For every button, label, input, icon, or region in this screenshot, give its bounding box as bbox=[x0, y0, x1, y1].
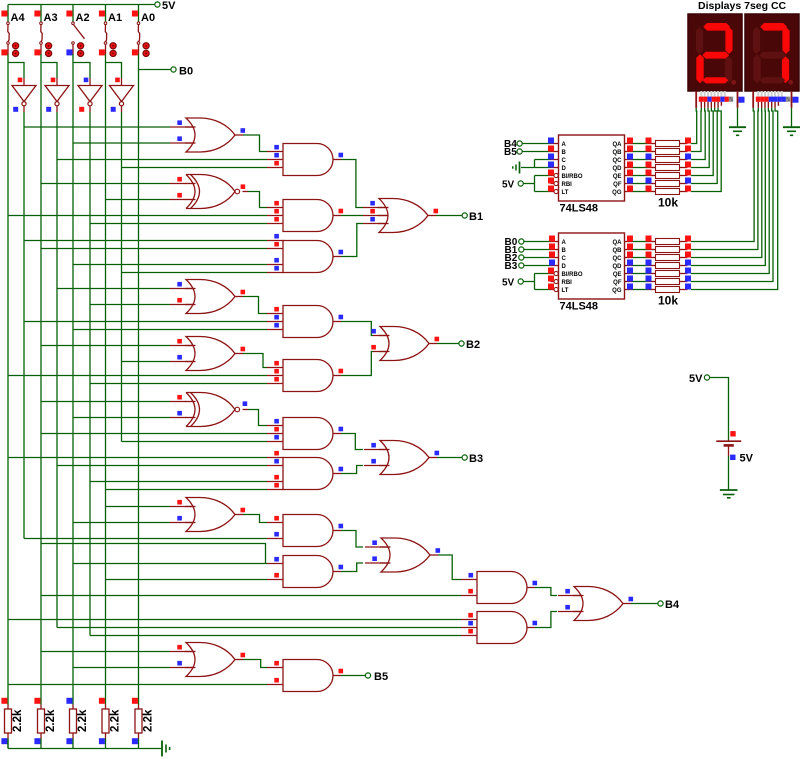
svg-text:QF: QF bbox=[613, 182, 622, 188]
svg-text:5V: 5V bbox=[740, 453, 754, 465]
ground (DS1 common) bbox=[729, 126, 746, 128]
wire A2 bus vertical bbox=[72, 54, 74, 705]
or-gate U24 (B4 stage) bbox=[186, 498, 235, 532]
switch A0 (SPDT logic input) bbox=[138, 5, 140, 23]
wire to AND U10 input 3 bbox=[122, 167, 268, 169]
wire U15 output to AND U16 input 1 bbox=[235, 296, 243, 298]
resistor R2 2.2k (pull-down) bbox=[40, 705, 42, 710]
7-segment display DS1 (digit 2) bbox=[688, 14, 742, 91]
wire to AND U13 input 3 bbox=[73, 264, 267, 266]
wire to OR U24 input 2 bbox=[73, 522, 170, 524]
wire to AND U16 input 3 bbox=[73, 329, 267, 331]
wire U13 output to OR U14 input 3 bbox=[333, 256, 341, 258]
or-gate U19 (output B2) bbox=[380, 327, 429, 361]
resistor RN2B 10k bbox=[633, 249, 648, 251]
svg-text:B1: B1 bbox=[469, 211, 483, 223]
wire to AND U18 input 3 bbox=[90, 383, 267, 385]
svg-text:QA: QA bbox=[613, 142, 623, 148]
svg-text:2.2k: 2.2k bbox=[110, 709, 122, 732]
wire A3 bus vertical bbox=[40, 54, 42, 705]
resistor RN1F 10k bbox=[633, 183, 648, 185]
wire to OR U31 input 1 bbox=[41, 651, 170, 653]
xnor-gate U11 (B1 stage) bbox=[186, 175, 235, 209]
wire U25 output to OR U27 input 1 bbox=[333, 530, 341, 532]
or-gate U31 (B5 stage) bbox=[186, 643, 235, 677]
svg-text:2.2k: 2.2k bbox=[143, 709, 155, 732]
wire to XNOR U11 input 2 bbox=[106, 199, 171, 201]
wire to AND U22 input 2 bbox=[57, 465, 267, 467]
wire A1 bus vertical bbox=[105, 54, 107, 705]
svg-text:QF: QF bbox=[613, 280, 622, 286]
wire to AND U18 input 2 bbox=[8, 375, 267, 377]
wire U21 output to OR U23 input 1 bbox=[333, 433, 341, 435]
wire RN1B to display DS1 pin 2 bbox=[691, 108, 701, 152]
wire to OR U31 input 2 bbox=[73, 667, 170, 669]
svg-text:D: D bbox=[562, 166, 567, 172]
svg-text:B: B bbox=[562, 248, 567, 254]
wire to AND U21 input 2 bbox=[41, 433, 267, 435]
resistor R5 2.2k (pull-down) bbox=[138, 705, 140, 710]
inverter U5 NOT (A4) bbox=[23, 78, 25, 86]
or-gate U27 (B4 stage) bbox=[381, 538, 430, 572]
ground (DS2 common) bbox=[783, 126, 800, 128]
ground (U1 C,D pins) bbox=[519, 162, 521, 174]
wire (A2) input branch bbox=[73, 63, 90, 79]
switch A1 (SPDT logic input) bbox=[105, 5, 107, 23]
or-gate U14 (3-input, output B1) bbox=[379, 199, 428, 233]
or-gate U15 (B2 stage) bbox=[186, 280, 235, 314]
wire to AND U22 input 4 bbox=[106, 489, 268, 491]
wire to XNOR U20 input 1 bbox=[41, 401, 170, 403]
wire RN2B to display DS2 pin 2 bbox=[691, 108, 758, 250]
svg-text:QA: QA bbox=[613, 240, 623, 246]
svg-text:74LS48: 74LS48 bbox=[560, 301, 599, 313]
or-gate U30 (output B4) bbox=[574, 587, 623, 621]
wire to AND U22 input 3 bbox=[90, 481, 267, 483]
wire 5V terminal to battery BT1 bbox=[710, 378, 729, 440]
terminal B1 (U2 input B) bbox=[519, 247, 524, 252]
and-gate U32 (output B5) bbox=[283, 660, 333, 692]
svg-text:QG: QG bbox=[612, 190, 622, 196]
switch A4 (SPDT logic input) bbox=[7, 5, 9, 23]
wire A4 bus vertical bbox=[7, 54, 9, 705]
wire NOT-A1 bus vertical bbox=[121, 112, 123, 442]
resistor RN2D 10k bbox=[633, 265, 648, 267]
ground (bottom rail) bbox=[161, 741, 163, 757]
and-gate U26 (B4 stage) bbox=[283, 556, 333, 588]
and-gate U16 (3-input, B2 stage) bbox=[283, 306, 333, 338]
wire U29 output to OR U30 input 2 bbox=[527, 627, 535, 629]
resistor RN1E 10k bbox=[633, 175, 648, 177]
svg-text:QC: QC bbox=[613, 256, 623, 262]
wire (A4) input branch bbox=[8, 63, 24, 79]
resistor RN1G 10k bbox=[633, 191, 648, 193]
resistor RN2E 10k bbox=[633, 273, 648, 275]
svg-text:QE: QE bbox=[613, 174, 622, 180]
svg-text:QE: QE bbox=[613, 272, 622, 278]
and-gate U28 (B4 stage) bbox=[477, 572, 527, 604]
svg-text:5V: 5V bbox=[162, 0, 176, 12]
wire to OR U17 input 1 bbox=[41, 345, 170, 347]
svg-text:QC: QC bbox=[613, 158, 623, 164]
wire to AND U32 input 2 bbox=[8, 684, 267, 686]
wire U17 output to AND U18 input 1 bbox=[235, 353, 243, 355]
wire U30 output to terminal B4 bbox=[623, 603, 631, 605]
svg-text:5V: 5V bbox=[502, 180, 515, 191]
terminal 5V (battery) bbox=[704, 375, 709, 380]
svg-text:Displays 7seg CC: Displays 7seg CC bbox=[698, 0, 787, 12]
resistor RN1C 10k bbox=[633, 159, 648, 161]
power rail 5V wire bbox=[8, 4, 155, 6]
or-gate U23 (output B3) bbox=[380, 441, 429, 475]
wire U12 output to OR U14 input 2 bbox=[333, 215, 341, 217]
svg-text:QD: QD bbox=[613, 166, 623, 172]
wire U32 output to terminal B5 bbox=[333, 675, 341, 677]
wire to AND U13 input 2 bbox=[41, 248, 267, 250]
svg-text:A1: A1 bbox=[108, 12, 122, 24]
svg-text:QB: QB bbox=[613, 248, 623, 254]
resistor R3 2.2k (pull-down) bbox=[72, 705, 74, 710]
terminal B5 (U1 input B) bbox=[517, 149, 522, 154]
resistor RN1A 10k bbox=[633, 143, 648, 145]
xnor-gate U20 (B3 stage) bbox=[186, 393, 235, 427]
wire to AND U26 input 1 bbox=[73, 563, 267, 565]
wire ground to U1 pins C,D bbox=[521, 160, 551, 168]
wire U19 output to terminal B2 bbox=[429, 343, 437, 345]
IC U1 74LS48 (tens digit decoder) bbox=[559, 135, 625, 201]
wire R2 to ground rail bbox=[40, 739, 42, 749]
svg-text:RBI: RBI bbox=[562, 182, 573, 188]
IC U2 74LS48 (units digit decoder) bbox=[559, 233, 625, 299]
wire RN2G to display DS2 pin 7 bbox=[691, 108, 778, 290]
terminal 5V (top) bbox=[155, 2, 160, 7]
wire DS2 common cathode to ground bbox=[791, 108, 793, 127]
wire U24 output to AND U25 input 1 bbox=[235, 514, 243, 516]
wire to AND U29 input 2 bbox=[57, 627, 461, 629]
svg-text:B2: B2 bbox=[466, 339, 480, 351]
resistor R1 2.2k (pull-down) bbox=[7, 705, 9, 710]
wire U10 output to OR U14 input 1 bbox=[333, 159, 341, 161]
svg-text:QD: QD bbox=[613, 264, 623, 270]
wire DS1 common cathode to ground bbox=[737, 108, 739, 127]
svg-text:QB: QB bbox=[613, 150, 623, 156]
svg-text:BI/RBO: BI/RBO bbox=[562, 174, 583, 180]
switch A3 (SPDT logic input) bbox=[40, 5, 42, 23]
and-gate U21 (3-input, B3 stage) bbox=[283, 418, 333, 450]
wire NOT-A4 bus vertical bbox=[23, 112, 25, 539]
wire ground rail (bottom) bbox=[8, 748, 161, 750]
wire to AND U10 input 2 bbox=[57, 159, 267, 161]
wire to OR U9 input 2 bbox=[73, 142, 170, 144]
svg-text:C: C bbox=[562, 256, 567, 262]
svg-text:A: A bbox=[562, 142, 567, 148]
svg-text:A0: A0 bbox=[141, 12, 155, 24]
resistor RN2C 10k bbox=[633, 257, 648, 259]
svg-text:2.2k: 2.2k bbox=[12, 709, 24, 732]
wire to AND U29 input 3 bbox=[90, 635, 461, 637]
svg-text:A3: A3 bbox=[44, 12, 58, 24]
wire RN1A to display DS1 pin 1 bbox=[691, 108, 697, 144]
svg-text:B5: B5 bbox=[374, 671, 388, 683]
svg-text:74LS48: 74LS48 bbox=[560, 203, 599, 215]
wire to AND U28 input 2 bbox=[41, 595, 461, 597]
svg-text:BI/RBO: BI/RBO bbox=[562, 272, 583, 278]
wire NOT-A2 bus vertical bbox=[89, 112, 91, 636]
wire to AND U21 input 3 bbox=[122, 441, 268, 443]
svg-text:B4: B4 bbox=[665, 599, 680, 611]
wire to AND U16 input 2 bbox=[24, 321, 267, 323]
svg-text:10k: 10k bbox=[658, 196, 678, 210]
terminal B1 bbox=[462, 213, 467, 218]
svg-text:5V: 5V bbox=[689, 373, 703, 385]
wire U22 output to OR U23 input 2 bbox=[333, 473, 341, 475]
svg-text:A: A bbox=[562, 240, 567, 246]
wire U9 output to AND U10 input 1 bbox=[235, 134, 243, 136]
wire U31 output to AND U32 input 1 bbox=[235, 659, 243, 661]
svg-text:A4: A4 bbox=[11, 12, 26, 24]
svg-text:C: C bbox=[562, 158, 567, 164]
svg-text:B3: B3 bbox=[469, 453, 483, 465]
wire R5 to ground rail bbox=[138, 739, 140, 749]
battery BT1 5V bbox=[716, 440, 741, 442]
terminal B4 (U1 input A) bbox=[517, 141, 522, 146]
switch A2 (SPDT logic input) bbox=[72, 5, 74, 23]
wire RN1F to display DS1 pin 6 bbox=[691, 108, 717, 184]
wire RN2E to display DS2 pin 5 bbox=[691, 108, 769, 274]
svg-text:RBI: RBI bbox=[562, 280, 573, 286]
wire U26 output to OR U27 input 2 bbox=[333, 571, 341, 573]
wire battery BT1 to ground bbox=[728, 456, 730, 490]
wire U18 output to OR U19 input 2 bbox=[333, 375, 341, 377]
and-gate U29 (3-input, B4 stage) bbox=[477, 612, 527, 644]
wire RN2F to display DS2 pin 6 bbox=[691, 108, 773, 282]
terminal B0 bbox=[171, 67, 176, 72]
terminal B2 bbox=[459, 341, 464, 346]
wire to AND U13 input 4 bbox=[122, 272, 268, 274]
svg-text:B: B bbox=[562, 150, 567, 156]
svg-text:2.2k: 2.2k bbox=[77, 709, 89, 732]
wire RN1E to display DS1 pin 5 bbox=[691, 108, 713, 176]
wire U28 output to OR U30 input 1 bbox=[527, 587, 535, 589]
and-gate U13 (4-input, B1 stage) bbox=[283, 241, 333, 273]
svg-text:2.2k: 2.2k bbox=[45, 709, 57, 732]
ground (battery BT1) bbox=[720, 489, 738, 491]
wire (A3) input branch bbox=[41, 63, 57, 79]
wire to XNOR U20 input 2 bbox=[73, 417, 170, 419]
wire U11 output to AND U12 input 1 bbox=[243, 191, 249, 193]
wire R4 to ground rail bbox=[105, 739, 107, 749]
7-segment display DS2 (digit 7) bbox=[745, 14, 799, 91]
svg-text:A2: A2 bbox=[76, 12, 90, 24]
wire RN2C to display DS2 pin 3 bbox=[691, 108, 762, 258]
and-gate U22 (4-input, B3 stage) bbox=[283, 458, 333, 490]
svg-text:B3: B3 bbox=[505, 261, 518, 272]
wire RN1C to display DS1 pin 3 bbox=[691, 108, 705, 160]
or-gate U9 (B1 stage) bbox=[186, 118, 235, 152]
wire RN2D to display DS2 pin 4 bbox=[691, 108, 765, 266]
svg-text:5V: 5V bbox=[502, 278, 515, 289]
wire to AND U13 input 1 bbox=[24, 240, 267, 242]
resistor RN2G 10k bbox=[633, 289, 648, 291]
and-gate U18 (3-input, B2 stage) bbox=[283, 360, 333, 392]
terminal B3 bbox=[462, 455, 467, 460]
inverter U7 NOT (A2) bbox=[89, 78, 91, 86]
wire to XNOR U11 input 1 bbox=[41, 183, 170, 185]
and-gate U10 (3-input, B1 stage) bbox=[283, 144, 333, 176]
resistor RN2A 10k bbox=[633, 241, 648, 243]
wire R1 to ground rail bbox=[7, 739, 9, 749]
svg-text:B0: B0 bbox=[179, 66, 193, 78]
wire to AND U22 input 1 bbox=[8, 457, 267, 459]
inverter U6 NOT (A3) bbox=[56, 78, 58, 86]
terminal B2 (U2 input C) bbox=[519, 255, 524, 260]
and-gate U12 (3-input, B1 stage) bbox=[283, 200, 333, 232]
svg-text:B5: B5 bbox=[504, 147, 517, 158]
terminal B5 bbox=[365, 673, 370, 678]
or-gate U17 (B2 stage) bbox=[186, 337, 235, 371]
svg-text:LT: LT bbox=[562, 288, 569, 294]
wire to AND U12 input 2 bbox=[8, 215, 267, 217]
svg-text:D: D bbox=[562, 264, 567, 270]
wire to AND U26 input 2 bbox=[106, 579, 268, 581]
resistor RN1B 10k bbox=[633, 151, 648, 153]
inverter U8 NOT (A1) bbox=[121, 78, 123, 86]
terminal B4 bbox=[658, 601, 663, 606]
wire A0 to terminal B0 bbox=[139, 69, 172, 71]
svg-text:QG: QG bbox=[612, 288, 622, 294]
terminal 5V (U1 BI,RBI,LT) bbox=[518, 181, 523, 186]
svg-text:10k: 10k bbox=[658, 294, 678, 308]
and-gate U25 (B4 stage) bbox=[283, 515, 333, 547]
wire U14 output to terminal B1 bbox=[428, 215, 436, 217]
terminal B0 (U2 input A) bbox=[519, 239, 524, 244]
wire (A1) input branch bbox=[106, 63, 122, 79]
wire RN1D to display DS1 pin 4 bbox=[691, 108, 709, 168]
wire NOT-A3 bus vertical bbox=[56, 112, 58, 628]
wire to AND U25 input 2 bbox=[24, 538, 267, 540]
wire R3 to ground rail bbox=[72, 739, 74, 749]
wire to OR U24 input 1 bbox=[106, 506, 171, 508]
wire to OR U15 input 2 bbox=[90, 304, 170, 306]
wire RN2A to display DS2 pin 1 bbox=[691, 108, 754, 242]
wire to OR U17 input 2 bbox=[122, 361, 171, 363]
wire U16 output to OR U19 input 1 bbox=[333, 321, 341, 323]
terminal 5V (U2 BI,RBI,LT) bbox=[518, 279, 523, 284]
wire A3 bus feeder to node at AND U26 input bbox=[41, 544, 266, 564]
wire RN1G to display DS1 pin 7 bbox=[691, 108, 721, 192]
wire A0 bus vertical bbox=[138, 54, 140, 705]
resistor RN2F 10k bbox=[633, 281, 648, 283]
wire to AND U12 input 3 bbox=[90, 223, 267, 225]
wire to AND U29 input 1 bbox=[8, 619, 461, 621]
wire U20 output to AND U21 input 1 bbox=[243, 409, 249, 411]
terminal B3 (U2 input D) bbox=[519, 263, 524, 268]
svg-text:LT: LT bbox=[562, 190, 569, 196]
wire U23 output to terminal B3 bbox=[429, 457, 437, 459]
wire to OR U15 input 1 bbox=[57, 288, 170, 290]
resistor R4 2.2k (pull-down) bbox=[105, 705, 107, 710]
wire to OR U9 input 1 bbox=[24, 126, 170, 128]
wire U27 output to AND U28 input 1 bbox=[430, 554, 438, 556]
resistor RN1D 10k bbox=[633, 167, 648, 169]
